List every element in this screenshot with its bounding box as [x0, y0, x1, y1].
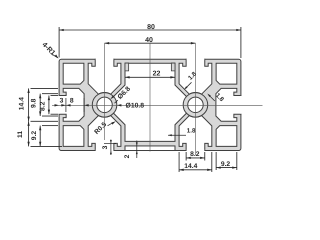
svg-text:3: 3	[102, 145, 109, 149]
screw hole B dia 6.8	[188, 97, 203, 112]
dim 3 bottom lip height	[110, 140, 112, 156]
svg-text:1.8: 1.8	[187, 128, 196, 135]
channel cavity	[110, 63, 189, 141]
center line boss A vertical	[104, 43, 106, 140]
top slot cavity left	[88, 59, 121, 94]
screw boss B outer circle	[183, 93, 208, 118]
chamber hole bottom-left	[63, 126, 84, 147]
svg-text:80: 80	[147, 24, 155, 31]
channel roof hook left	[125, 63, 129, 71]
chamber hole top-left	[63, 63, 84, 84]
dim 14.4 bottom slot cavity	[178, 152, 180, 172]
dim 8.2 slot opening	[48, 95, 50, 114]
svg-text:9.8: 9.8	[30, 98, 37, 108]
dim 9.8 slot bottom width	[39, 94, 41, 116]
chamber hole bottom-right	[216, 126, 237, 147]
dim 2 floor gap	[136, 141, 138, 159]
top slot cavity right	[179, 59, 212, 94]
channel roof hook right	[171, 63, 175, 71]
chamber hole top-right	[216, 63, 237, 84]
svg-text:11: 11	[17, 131, 24, 138]
svg-text:8.2: 8.2	[40, 101, 47, 111]
dim 3 lip depth	[65, 98, 67, 112]
svg-text:Ø10.8: Ø10.8	[126, 103, 145, 110]
left face slot cavity	[59, 88, 84, 121]
bottom slot cavity left	[88, 116, 121, 151]
channel bottom recess	[125, 146, 175, 151]
dim 9.2 chamber hole height	[39, 126, 41, 147]
screw boss A outer circle	[92, 93, 117, 118]
svg-text:3: 3	[60, 97, 64, 104]
label dia 10.8	[117, 104, 122, 106]
svg-text:9.2: 9.2	[221, 161, 231, 168]
svg-text:22: 22	[153, 71, 161, 78]
dim 11	[28, 121, 30, 146]
dim 80 top	[58, 27, 60, 58]
svg-text:8.2: 8.2	[190, 151, 200, 158]
svg-text:14.4: 14.4	[19, 97, 26, 110]
dim 22 channel width	[125, 76, 175, 78]
center line profile middle vertical	[149, 43, 151, 151]
open mouth side slots	[58, 96, 60, 114]
bottom slot cavity right	[179, 116, 212, 151]
svg-text:2: 2	[124, 154, 131, 158]
screw hole A dia 6.8	[97, 97, 112, 112]
dim 8 cavity depth	[61, 104, 66, 106]
center line boss B vertical	[194, 43, 196, 155]
svg-text:8: 8	[70, 97, 74, 104]
dim 14.4 left slot cavity width	[28, 88, 30, 121]
svg-text:9.2: 9.2	[31, 131, 38, 141]
svg-text:14.4: 14.4	[184, 163, 197, 170]
dim 8.2 bottom slot opening	[185, 152, 187, 161]
open mouth top slots	[96, 58, 114, 60]
dim 40	[105, 42, 196, 44]
dim 9.2 right chamber width	[215, 152, 217, 170]
svg-text:40: 40	[145, 37, 153, 44]
profile body	[59, 59, 241, 150]
horizontal center line	[52, 104, 263, 106]
right face slot cavity	[216, 88, 241, 121]
